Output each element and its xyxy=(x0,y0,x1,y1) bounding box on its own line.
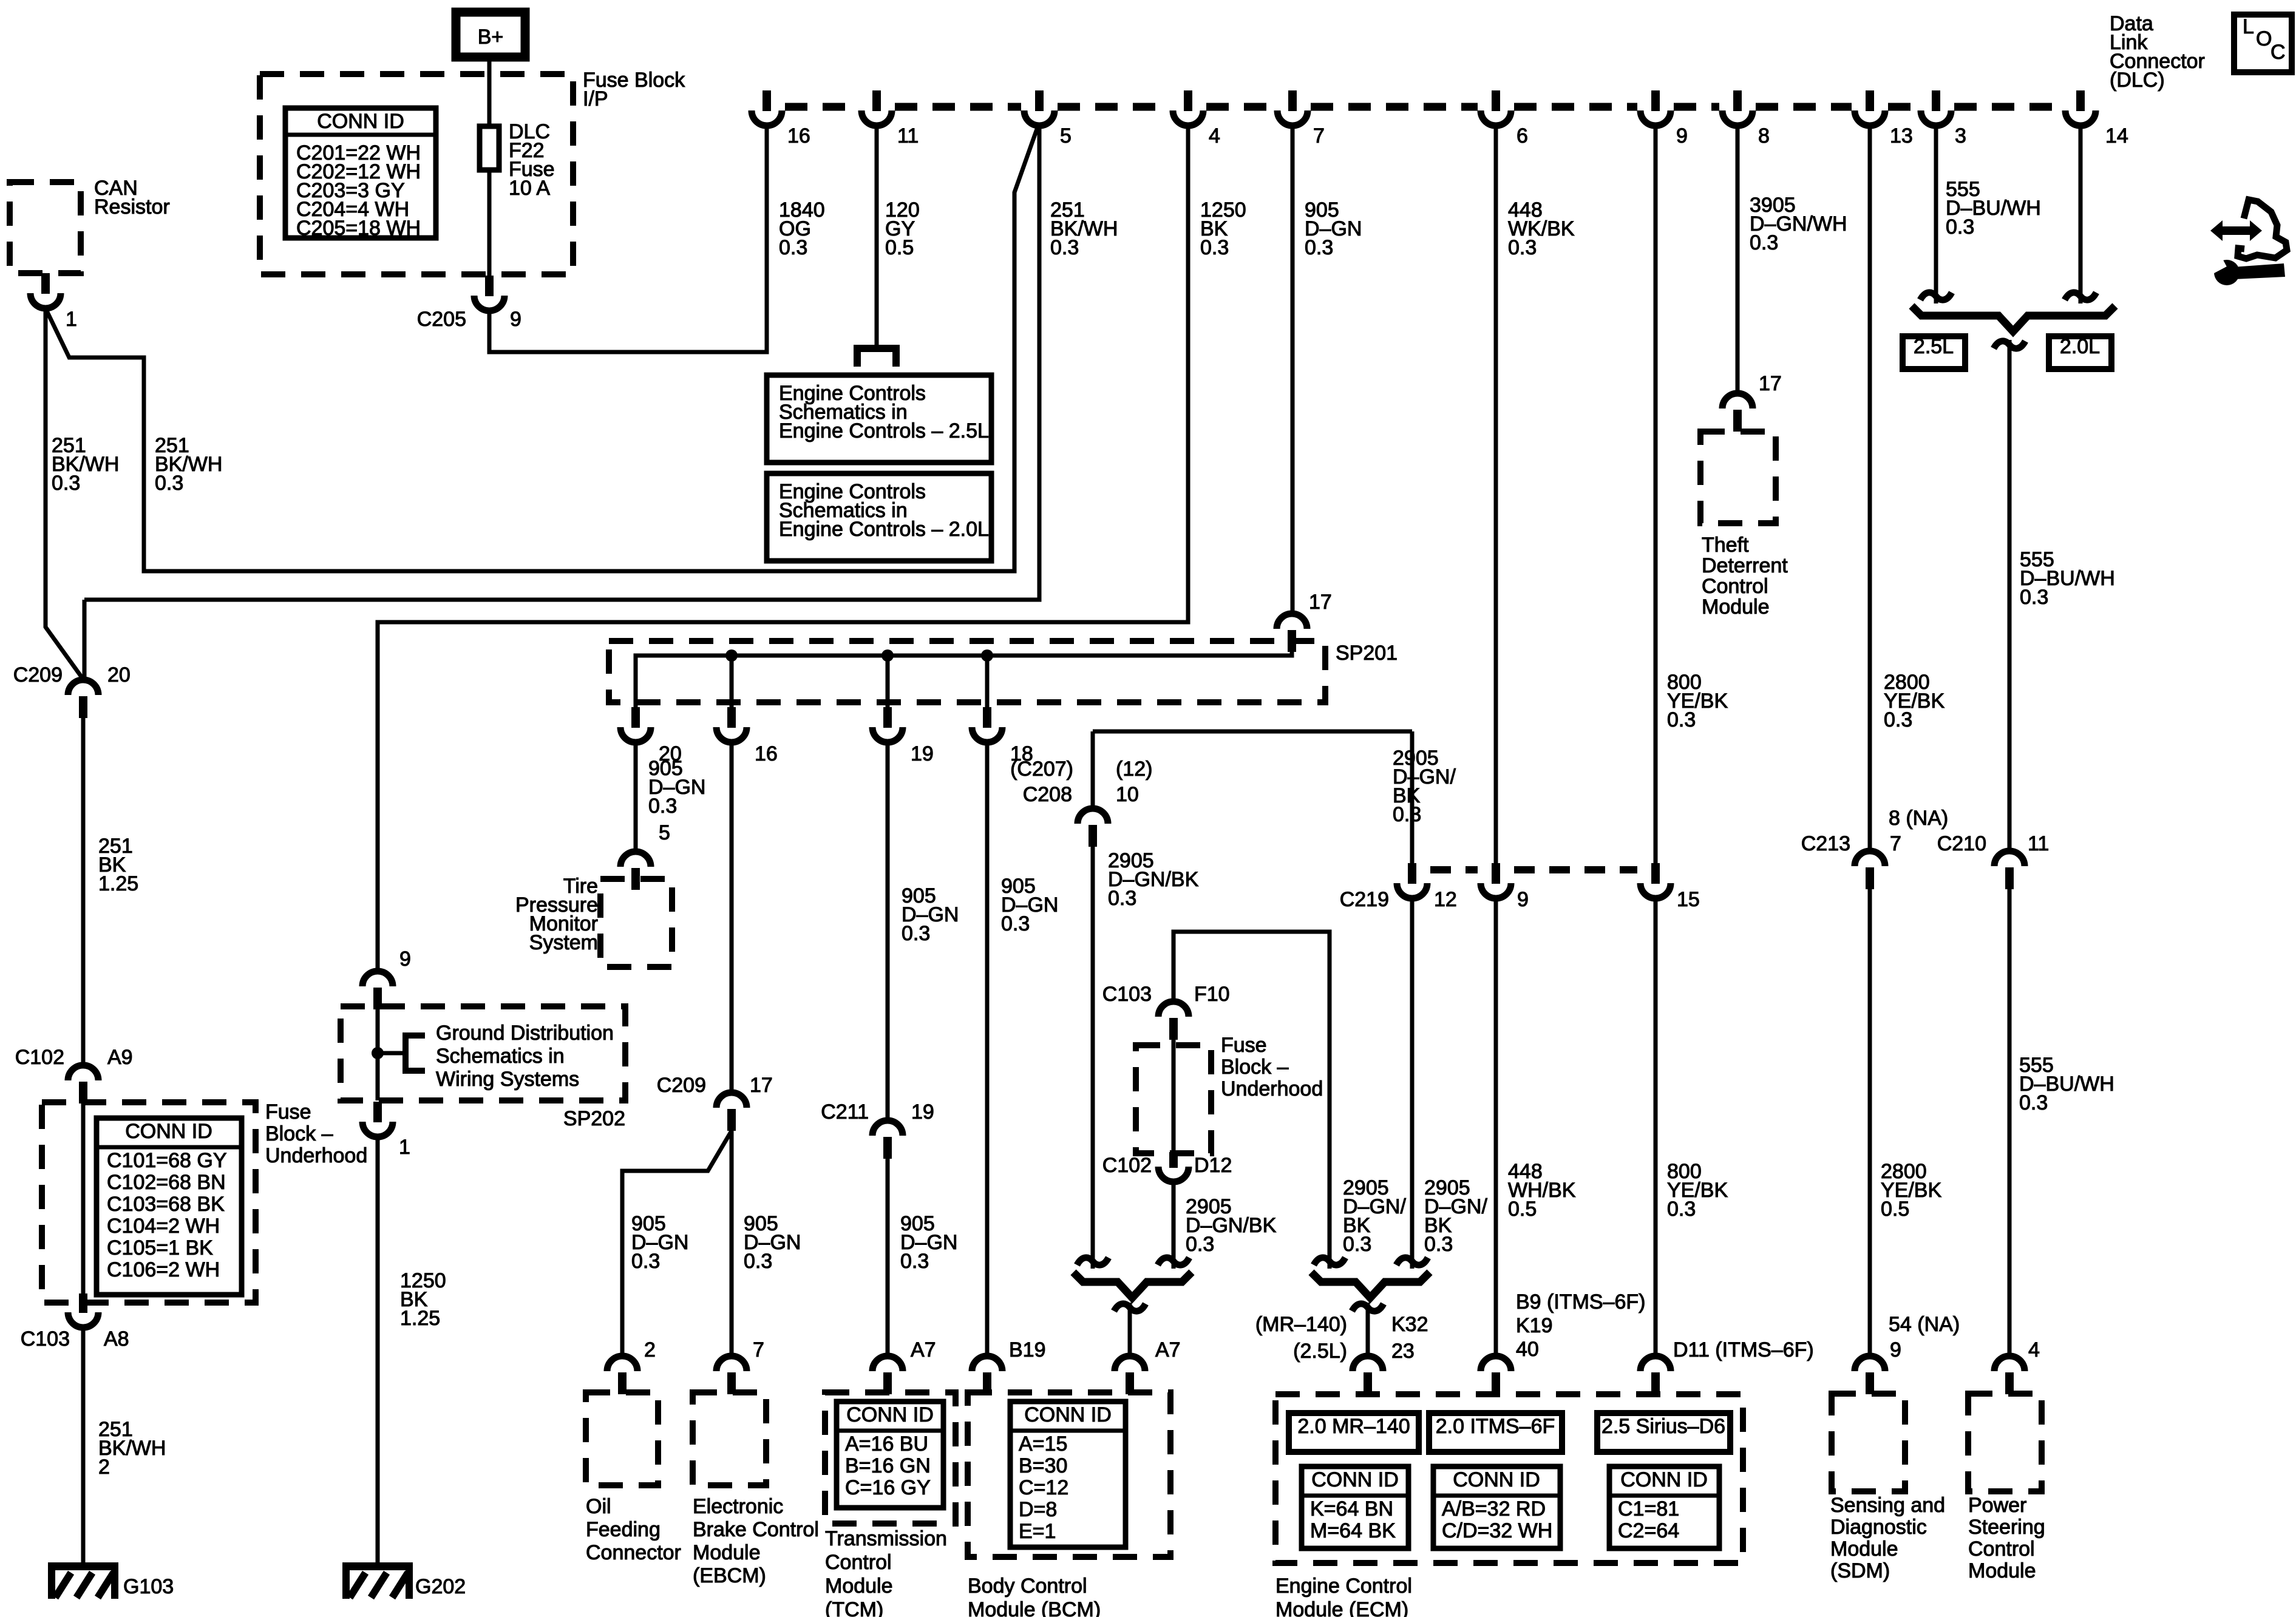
svg-text:0.3: 0.3 xyxy=(1667,1198,1696,1221)
svg-text:10 A: 10 A xyxy=(509,177,550,200)
svg-text:Module (BCM): Module (BCM) xyxy=(968,1598,1101,1617)
svg-text:CONN ID: CONN ID xyxy=(1620,1468,1708,1491)
svg-text:11: 11 xyxy=(897,124,919,147)
ground G202 xyxy=(342,1562,413,1570)
svg-text:0.3: 0.3 xyxy=(631,1250,660,1273)
svg-text:(C207): (C207) xyxy=(1010,758,1073,781)
svg-text:17: 17 xyxy=(1309,591,1332,614)
svg-text:Brake Control: Brake Control xyxy=(693,1518,819,1541)
svg-text:C106=2 WH: C106=2 WH xyxy=(107,1258,220,1281)
DLC connector pin 9 xyxy=(1651,90,1660,111)
svg-text:0.3: 0.3 xyxy=(744,1250,772,1273)
svg-text:CONN ID: CONN ID xyxy=(125,1120,212,1143)
svg-text:19: 19 xyxy=(911,742,934,765)
svg-text:54 (NA): 54 (NA) xyxy=(1889,1313,1960,1336)
CAN resistor xyxy=(10,182,81,273)
svg-text:10: 10 xyxy=(1116,783,1139,806)
svg-text:(DLC): (DLC) xyxy=(2110,69,2165,92)
svg-text:C=16 GY: C=16 GY xyxy=(845,1476,931,1499)
svg-text:6: 6 xyxy=(1517,124,1528,147)
svg-text:0.3: 0.3 xyxy=(1393,803,1421,826)
ground G103 xyxy=(48,1562,118,1570)
svg-text:(12): (12) xyxy=(1116,758,1152,781)
svg-text:B=30: B=30 xyxy=(1019,1454,1067,1477)
pigtail right brace arm1 xyxy=(1314,1258,1345,1265)
svg-text:Engine Controls – 2.0L: Engine Controls – 2.0L xyxy=(779,518,989,541)
connector SP201 pin 16 xyxy=(727,707,736,728)
svg-text:C102=68 BN: C102=68 BN xyxy=(107,1171,226,1194)
DLC connector pin 5 xyxy=(1035,90,1044,111)
svg-text:E=1: E=1 xyxy=(1019,1520,1056,1543)
svg-text:0.3: 0.3 xyxy=(1050,236,1079,259)
connector ID table (BCM) xyxy=(1010,1402,1126,1547)
svg-text:11: 11 xyxy=(2028,832,2049,855)
connector ID table (underhood) xyxy=(97,1118,242,1295)
wire DLC pin14 down xyxy=(2079,126,2083,303)
DLC connector pin 4 xyxy=(1184,90,1192,111)
junction dot 19 xyxy=(881,649,894,662)
svg-text:K=64 BN: K=64 BN xyxy=(1310,1497,1393,1520)
DLC connector pin 14 xyxy=(2076,90,2085,111)
pigtail below DLC brace xyxy=(1994,341,2025,348)
svg-text:0.3: 0.3 xyxy=(1750,231,1778,254)
svg-text:Sensing and: Sensing and xyxy=(1830,1494,1945,1517)
pigtail pin14 xyxy=(2065,293,2096,300)
svg-text:Diagnostic: Diagnostic xyxy=(1830,1516,1927,1539)
svg-text:A=15: A=15 xyxy=(1019,1432,1067,1456)
svg-text:15: 15 xyxy=(1677,888,1700,911)
svg-text:(MR–140): (MR–140) xyxy=(1255,1313,1347,1336)
wire DLC pin4 to SP202 xyxy=(378,126,1188,972)
svg-text:2.0L: 2.0L xyxy=(2060,335,2100,358)
svg-text:C208: C208 xyxy=(1023,783,1072,806)
svg-text:C103: C103 xyxy=(1102,983,1152,1006)
oil feeding connector box xyxy=(586,1392,658,1485)
svg-text:Power: Power xyxy=(1968,1494,2026,1517)
fuse block I/P dashed box xyxy=(260,74,573,274)
svg-text:(TCM): (TCM) xyxy=(825,1598,883,1617)
svg-text:Block –: Block – xyxy=(1221,1056,1289,1079)
SP201 bus xyxy=(636,632,1292,727)
fuse F22 DLC 10A xyxy=(480,126,499,170)
SDM box xyxy=(1832,1394,1905,1491)
svg-text:0.3: 0.3 xyxy=(900,1250,929,1273)
svg-text:0.5: 0.5 xyxy=(1881,1198,1909,1221)
svg-text:14: 14 xyxy=(2105,124,2128,147)
wire C211 to TCM xyxy=(886,1159,890,1357)
svg-text:0.3: 0.3 xyxy=(1343,1233,1371,1256)
wire inside fuse block xyxy=(81,1103,86,1293)
connector C102 pin A9 xyxy=(68,1065,98,1080)
connector C205 pin 9 xyxy=(485,276,494,296)
svg-text:8 (NA): 8 (NA) xyxy=(1889,807,1948,830)
svg-text:8: 8 xyxy=(1758,124,1770,147)
svg-text:0.3: 0.3 xyxy=(1946,215,1974,239)
connector C219 pin 9 xyxy=(1492,863,1500,884)
svg-text:0.3: 0.3 xyxy=(1508,236,1537,259)
pigtail below right brace xyxy=(1352,1304,1384,1311)
connector C209 pin 17 xyxy=(716,1093,747,1108)
svg-text:Resistor: Resistor xyxy=(94,195,170,219)
svg-text:B9 (ITMS–6F): B9 (ITMS–6F) xyxy=(1516,1290,1645,1314)
wire DLC pin7 to SP201 xyxy=(1291,126,1295,614)
wire CAN pin1 to C209-20 xyxy=(46,308,83,679)
svg-text:B=16 GN: B=16 GN xyxy=(845,1454,931,1477)
TCM box xyxy=(825,1392,956,1524)
svg-text:CONN ID: CONN ID xyxy=(846,1403,934,1426)
svg-text:5: 5 xyxy=(659,821,670,844)
theft deterrent box xyxy=(1700,432,1776,523)
svg-text:A=16 BU: A=16 BU xyxy=(845,1432,928,1456)
engine controls 2.5L box xyxy=(767,375,991,463)
wire DLC pin3 down xyxy=(1934,126,1938,303)
svg-text:4: 4 xyxy=(1209,124,1220,147)
connector C211 pin 19 xyxy=(872,1120,903,1136)
svg-text:C105=1 BK: C105=1 BK xyxy=(107,1236,213,1259)
service icon wrench xyxy=(2214,260,2240,285)
svg-text:17: 17 xyxy=(750,1074,773,1097)
wire brace to BCM A7 xyxy=(1128,1303,1132,1357)
C219 dashed line xyxy=(1430,866,1478,873)
wire drop 16 xyxy=(730,656,734,727)
svg-text:L: L xyxy=(2243,15,2254,38)
connector SDM pin 9 xyxy=(1855,1356,1885,1371)
svg-text:9: 9 xyxy=(399,947,411,971)
svg-text:2: 2 xyxy=(644,1338,656,1361)
svg-text:0.5: 0.5 xyxy=(1508,1198,1537,1221)
svg-text:K19: K19 xyxy=(1516,1314,1553,1337)
connector theft pin 17 xyxy=(1722,393,1753,408)
wire SP201-16 down xyxy=(730,742,734,1093)
svg-text:16: 16 xyxy=(787,124,810,147)
svg-text:Schematics in: Schematics in xyxy=(436,1045,565,1068)
wire DLC pin13 to C213 xyxy=(1868,126,1872,852)
connector C103 pin A8 xyxy=(79,1293,87,1313)
power steering box xyxy=(1968,1394,2042,1491)
wire SP201-19 down xyxy=(886,742,890,1121)
svg-text:C102: C102 xyxy=(1102,1154,1152,1177)
svg-text:0.3: 0.3 xyxy=(1305,236,1333,259)
wire B+ to fuse xyxy=(487,57,492,126)
svg-text:20: 20 xyxy=(107,663,131,686)
connector SP201 pin 19 xyxy=(883,707,892,728)
wire CAN pin1 to DLC pin 5 xyxy=(46,126,1038,571)
svg-text:Control: Control xyxy=(825,1551,892,1574)
connector PSCM pin 4 xyxy=(1994,1356,2025,1371)
connector SP201 pin 18 xyxy=(983,707,991,728)
svg-text:B19: B19 xyxy=(1009,1338,1046,1361)
ECM box xyxy=(1275,1394,1743,1563)
svg-text:Connector: Connector xyxy=(586,1541,681,1564)
svg-text:Underhood: Underhood xyxy=(265,1144,367,1167)
svg-text:D11 (ITMS–6F): D11 (ITMS–6F) xyxy=(1673,1338,1814,1361)
svg-text:7: 7 xyxy=(1890,832,1901,855)
svg-text:CONN ID: CONN ID xyxy=(317,110,404,133)
wire brace to ECM K32 xyxy=(1366,1303,1370,1357)
DLC connector pin 16 xyxy=(763,90,771,111)
ECM 2.0 MR-140 box xyxy=(1289,1413,1419,1452)
svg-text:Feeding: Feeding xyxy=(586,1518,661,1541)
svg-text:CONN ID: CONN ID xyxy=(1024,1403,1112,1426)
svg-text:0.3: 0.3 xyxy=(648,795,677,818)
wire DLC pin9 to C219-15 xyxy=(1654,126,1658,864)
connector CAN pin 1 xyxy=(41,273,50,294)
connector C213 pin 7 xyxy=(1855,851,1885,866)
svg-text:Ground Distribution: Ground Distribution xyxy=(436,1022,614,1045)
svg-text:Wiring Systems: Wiring Systems xyxy=(436,1068,579,1091)
svg-text:0.3: 0.3 xyxy=(1108,887,1136,910)
wire C103 to G103 xyxy=(81,1327,86,1564)
svg-text:16: 16 xyxy=(755,742,778,765)
svg-text:0.3: 0.3 xyxy=(1884,708,1912,731)
pigtail left brace arm2 xyxy=(1158,1258,1189,1265)
svg-text:SP202: SP202 xyxy=(563,1107,625,1130)
svg-text:A/B=32 RD: A/B=32 RD xyxy=(1442,1497,1546,1520)
wire C208 to C219-12 xyxy=(1093,730,1412,734)
connector TPMS pin 5 xyxy=(620,852,651,867)
pigtail pin3 xyxy=(1920,293,1952,300)
svg-text:0.3: 0.3 xyxy=(1424,1233,1453,1256)
wire drop 18 xyxy=(985,656,990,727)
wire fuse to C205 xyxy=(487,170,492,276)
svg-text:Body Control: Body Control xyxy=(968,1575,1087,1598)
svg-text:0.3: 0.3 xyxy=(1200,236,1229,259)
svg-text:Module: Module xyxy=(693,1541,761,1564)
svg-text:4: 4 xyxy=(2028,1338,2040,1361)
connector SP201 pin 20 xyxy=(631,707,640,728)
splice pack SP201 box xyxy=(609,641,1325,702)
svg-text:C: C xyxy=(2271,41,2286,64)
junction dot SP202 xyxy=(372,1047,384,1059)
svg-text:2.0 ITMS–6F: 2.0 ITMS–6F xyxy=(1436,1415,1555,1438)
svg-text:Module: Module xyxy=(1968,1559,2036,1582)
svg-text:23: 23 xyxy=(1391,1340,1415,1363)
DLC connector pin 13 xyxy=(1866,90,1874,111)
svg-text:C1=81: C1=81 xyxy=(1618,1497,1679,1520)
connector ID table (fuse block I/P) xyxy=(285,108,436,238)
connector C209 pin 20 xyxy=(68,680,98,695)
pigtail left brace arm1 xyxy=(1077,1258,1109,1265)
connector BCM pin A7 xyxy=(1115,1356,1145,1371)
wire brace to C210 xyxy=(2008,340,2012,852)
svg-text:0.5: 0.5 xyxy=(885,236,914,259)
svg-text:Transmission: Transmission xyxy=(825,1527,947,1550)
junction dot 16 xyxy=(725,649,738,662)
wire C219-9 to ECM 40 xyxy=(1494,898,1498,1357)
svg-text:A7: A7 xyxy=(911,1338,936,1361)
svg-text:K32: K32 xyxy=(1391,1313,1428,1336)
wire C205 to DLC pin 16 xyxy=(489,126,767,352)
wire C213 to SDM xyxy=(1868,889,1872,1357)
svg-text:B+: B+ xyxy=(478,25,504,49)
svg-text:C103: C103 xyxy=(21,1327,70,1351)
svg-text:9: 9 xyxy=(1517,888,1529,911)
svg-text:0.3: 0.3 xyxy=(2020,586,2048,609)
svg-text:17: 17 xyxy=(1759,372,1782,395)
svg-text:19: 19 xyxy=(911,1100,934,1124)
svg-text:1: 1 xyxy=(399,1136,410,1159)
svg-text:5: 5 xyxy=(1060,124,1072,147)
wire C209 branch xyxy=(84,126,1039,600)
wire SP202 to G202 xyxy=(376,1137,380,1564)
svg-text:G202: G202 xyxy=(415,1575,466,1598)
svg-text:A8: A8 xyxy=(104,1327,129,1351)
svg-text:12: 12 xyxy=(1434,888,1457,911)
svg-text:Fuse: Fuse xyxy=(1221,1034,1267,1057)
svg-text:C213: C213 xyxy=(1801,832,1850,855)
svg-text:(2.5L): (2.5L) xyxy=(1293,1340,1347,1363)
wire C219-12 to brace xyxy=(1410,898,1415,1269)
brace DLC 3-14 xyxy=(1912,306,2115,331)
connector C103 pin F10 xyxy=(1158,1002,1189,1017)
wire inside middle fuse block xyxy=(1172,1040,1176,1153)
svg-text:Module: Module xyxy=(825,1575,893,1598)
svg-text:C102: C102 xyxy=(15,1046,64,1069)
svg-text:C/D=32 WH: C/D=32 WH xyxy=(1442,1519,1552,1542)
DLC bus dashed line xyxy=(785,103,858,111)
svg-text:G103: G103 xyxy=(123,1575,174,1598)
connector SP202 pin 1 xyxy=(373,1102,382,1122)
pigtail right brace arm2 xyxy=(1396,1258,1428,1265)
EBCM box xyxy=(693,1392,766,1485)
connector ECM pin K32-23 xyxy=(1353,1356,1383,1371)
svg-text:I/P: I/P xyxy=(583,87,608,110)
wire drop to C208 xyxy=(1091,731,1095,809)
connector EBCM pin 7 xyxy=(716,1356,747,1371)
splice pack SP202 box xyxy=(341,1006,625,1100)
svg-text:System: System xyxy=(529,931,598,954)
svg-text:0.3: 0.3 xyxy=(1001,912,1030,935)
svg-text:1: 1 xyxy=(66,308,77,331)
svg-text:40: 40 xyxy=(1516,1338,1539,1361)
SP202 internal wire xyxy=(376,1006,380,1100)
svg-text:Electronic: Electronic xyxy=(693,1495,783,1518)
brace ECM K32 xyxy=(1311,1272,1430,1298)
svg-text:C211: C211 xyxy=(821,1100,869,1124)
power feed B+ xyxy=(456,12,525,57)
svg-text:A9: A9 xyxy=(107,1046,133,1069)
DLC connector pin 8 xyxy=(1733,90,1742,111)
svg-text:9: 9 xyxy=(1890,1338,1901,1361)
wire DLC pin6 to C219-9 xyxy=(1494,126,1498,864)
svg-text:Engine Controls – 2.5L: Engine Controls – 2.5L xyxy=(779,419,989,442)
svg-text:Module: Module xyxy=(1830,1537,1898,1561)
svg-text:CONN ID: CONN ID xyxy=(1453,1468,1540,1491)
wire drop to C209-20 xyxy=(83,600,87,680)
svg-text:2.5L: 2.5L xyxy=(1914,335,1954,358)
BCM box xyxy=(968,1392,1170,1557)
svg-text:M=64 BK: M=64 BK xyxy=(1310,1519,1396,1542)
wire DLC pin11 down xyxy=(875,126,879,348)
wire drop C219-12 xyxy=(1410,731,1415,864)
connector BCM pin B19 xyxy=(972,1356,1002,1371)
svg-text:C2=64: C2=64 xyxy=(1618,1519,1679,1542)
pigtail below left brace xyxy=(1114,1304,1146,1311)
DLC connector pin 6 xyxy=(1492,90,1500,111)
svg-text:9: 9 xyxy=(1676,124,1688,147)
connector C219 pin 12 xyxy=(1408,863,1416,884)
wire C208 to brace xyxy=(1091,847,1095,1269)
connector SP201 pin 17 xyxy=(1277,614,1307,629)
engine controls 2.0L box xyxy=(767,473,991,561)
svg-text:0.3: 0.3 xyxy=(155,472,183,495)
svg-text:13: 13 xyxy=(1890,124,1913,147)
svg-text:Oil: Oil xyxy=(586,1495,611,1518)
svg-text:1.25: 1.25 xyxy=(98,872,138,895)
svg-text:7: 7 xyxy=(753,1338,764,1361)
wire SP201-18 down xyxy=(985,742,990,1357)
wire F10 to 2905 branch xyxy=(1173,932,1330,1269)
svg-text:C205: C205 xyxy=(417,308,466,331)
DLC connector pin 11 xyxy=(872,90,881,111)
svg-text:3: 3 xyxy=(1955,124,1966,147)
connector oil pin 2 xyxy=(607,1356,637,1371)
svg-text:(EBCM): (EBCM) xyxy=(693,1564,766,1587)
connector ID table (ECM MR-140) xyxy=(1302,1466,1408,1548)
junction dot 18 xyxy=(981,649,993,662)
svg-text:Block –: Block – xyxy=(265,1122,333,1145)
svg-text:0.3: 0.3 xyxy=(2019,1091,2048,1114)
wire C210 to PSCM xyxy=(2008,889,2012,1357)
DLC connector pin 7 xyxy=(1288,90,1297,111)
wire DLC pin8 to theft xyxy=(1736,126,1740,394)
wire SP201-20 to TPMS xyxy=(634,742,638,852)
svg-text:C103=68 BK: C103=68 BK xyxy=(107,1193,225,1216)
svg-text:Engine Control: Engine Control xyxy=(1275,1575,1412,1598)
svg-text:9: 9 xyxy=(510,308,521,331)
svg-text:C209: C209 xyxy=(13,663,63,686)
svg-text:C210: C210 xyxy=(1937,832,1986,855)
connector ID table (ECM Sirius) xyxy=(1609,1466,1719,1548)
svg-text:0.3: 0.3 xyxy=(1186,1233,1214,1256)
engine 2.0L box xyxy=(2049,336,2111,369)
svg-text:C=12: C=12 xyxy=(1019,1476,1068,1499)
svg-text:0.3: 0.3 xyxy=(52,472,80,495)
engine 2.5L box xyxy=(1903,336,1965,369)
svg-text:Module: Module xyxy=(1702,595,1770,619)
service icon body outline xyxy=(2238,200,2287,259)
fuse block underhood box (middle) xyxy=(1136,1045,1211,1153)
svg-text:C205=18 WH: C205=18 WH xyxy=(296,217,421,240)
svg-text:1.25: 1.25 xyxy=(400,1307,440,1330)
svg-text:Deterrent: Deterrent xyxy=(1702,554,1788,577)
connector ECM pin D11 xyxy=(1640,1356,1671,1371)
ground distribution bracket xyxy=(378,1051,406,1056)
svg-text:CONN ID: CONN ID xyxy=(1311,1468,1399,1491)
svg-text:C104=2 WH: C104=2 WH xyxy=(107,1215,220,1238)
svg-text:Module (ECM): Module (ECM) xyxy=(1275,1598,1408,1617)
svg-text:Underhood: Underhood xyxy=(1221,1077,1323,1100)
svg-text:C219: C219 xyxy=(1340,888,1389,911)
wire D12 to brace xyxy=(1172,1182,1176,1269)
brace BCM A7 xyxy=(1073,1272,1192,1298)
connector TCM pin A7 xyxy=(872,1356,903,1371)
svg-text:C101=68 GY: C101=68 GY xyxy=(107,1149,227,1172)
svg-text:D12: D12 xyxy=(1194,1154,1232,1177)
svg-text:0.3: 0.3 xyxy=(779,236,807,259)
wire C209 to C102 xyxy=(81,718,86,1067)
offpage connector 2.5L xyxy=(857,348,896,367)
svg-text:0.3: 0.3 xyxy=(1667,708,1696,731)
svg-text:F10: F10 xyxy=(1194,983,1230,1006)
svg-text:2.5 Sirius–D6: 2.5 Sirius–D6 xyxy=(1601,1415,1725,1438)
svg-text:O: O xyxy=(2256,27,2272,50)
wire C209 to EBCM xyxy=(730,1131,734,1357)
svg-text:Control: Control xyxy=(1968,1537,2035,1561)
svg-text:SP201: SP201 xyxy=(1336,642,1398,665)
svg-text:Theft: Theft xyxy=(1702,534,1749,557)
svg-text:Steering: Steering xyxy=(1968,1516,2045,1539)
